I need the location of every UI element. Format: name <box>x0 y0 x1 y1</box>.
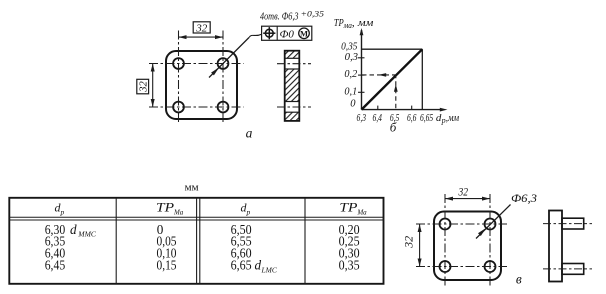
modifier circled M <box>299 28 310 39</box>
svg-text:Ф0: Ф0 <box>280 29 295 41</box>
label dia 6,3 <box>511 191 537 205</box>
table col1 data <box>45 222 97 273</box>
svg-text:32: 32 <box>458 187 469 199</box>
stud bottom (v) <box>562 264 584 275</box>
svg-text:4отв. Ф6,3: 4отв. Ф6,3 <box>260 10 299 22</box>
svg-text:0,2: 0,2 <box>344 69 358 80</box>
svg-text:0,35: 0,35 <box>339 258 360 273</box>
svg-text:6,65: 6,65 <box>231 258 252 273</box>
centerline horizontal top (a) <box>149 63 244 65</box>
graph box top line <box>362 48 423 50</box>
label v <box>516 272 522 287</box>
svg-text:0,15: 0,15 <box>157 258 177 273</box>
hole top-left (v) <box>440 219 451 230</box>
table header dp (col1) <box>55 201 65 217</box>
table header separator double line <box>9 217 383 220</box>
side view plate (v) <box>549 211 562 282</box>
svg-text:,мм: ,мм <box>446 113 460 124</box>
graph X axis <box>362 108 448 112</box>
svg-text:ма: ма <box>343 21 352 30</box>
svg-text:мм: мм <box>185 181 199 193</box>
plate front view (v) <box>434 212 501 281</box>
stud centerline top <box>543 223 592 225</box>
svg-text:32: 32 <box>404 236 416 249</box>
hole bottom-left (a) <box>173 102 184 113</box>
svg-text:6,4: 6,4 <box>372 112 382 124</box>
table caption mm <box>185 181 199 193</box>
svg-text:d: d <box>70 222 77 237</box>
table header TPMa (col4) <box>339 200 367 217</box>
svg-text:6,6: 6,6 <box>407 112 417 124</box>
svg-text:0: 0 <box>350 99 356 110</box>
centerline horizontal bottom (v) <box>416 266 507 268</box>
stud top (v) <box>562 218 584 229</box>
dimension 32 vertical (a) <box>137 64 155 108</box>
table header dp (col3) <box>241 201 251 217</box>
centerline vertical left (v) <box>444 194 446 286</box>
callout text 4 holes dia 6,3 +0,35 <box>260 10 324 23</box>
dimension 32 horizontal (a) <box>179 22 224 39</box>
table center double line <box>197 198 200 284</box>
dimension 32 vertical (v) <box>404 224 422 267</box>
svg-text:d: d <box>255 258 262 273</box>
svg-text:0,35: 0,35 <box>341 42 357 53</box>
leader line dia 6,3 (v) <box>476 205 511 239</box>
svg-text:32: 32 <box>137 81 149 93</box>
svg-text:в: в <box>516 272 522 287</box>
graph diagonal line <box>362 49 423 109</box>
centerline horizontal top (v) <box>416 223 507 225</box>
table column line 1 <box>115 198 117 284</box>
X axis label dp, mm <box>436 112 459 125</box>
svg-text:Ф6,3: Ф6,3 <box>511 191 537 205</box>
dimension 32 horizontal (v) <box>445 187 490 201</box>
table outer border <box>9 198 383 284</box>
hole bottom-right (a) <box>218 102 229 113</box>
leader line to feature control frame (a) <box>209 34 262 77</box>
section side view (a) <box>285 51 300 121</box>
hole top-right (v) <box>485 219 496 230</box>
svg-text:б: б <box>390 120 397 135</box>
hole bottom-right (v) <box>485 261 496 272</box>
feature control frame <box>262 26 312 40</box>
graph Y axis <box>360 28 364 110</box>
table col2 data <box>157 222 177 273</box>
svg-text:а: а <box>246 126 253 141</box>
svg-text:0,3: 0,3 <box>345 52 358 63</box>
graph X ticks <box>378 106 412 110</box>
svg-text:6,3: 6,3 <box>357 112 367 124</box>
section centerline top hole <box>277 63 311 65</box>
svg-text:М: М <box>300 29 308 39</box>
label a <box>246 126 253 141</box>
graph box right line <box>421 49 423 109</box>
table header TPMa (col2) <box>156 200 184 217</box>
svg-text:32: 32 <box>195 22 208 34</box>
hole top-right (a) <box>218 58 229 69</box>
svg-text:LMC: LMC <box>261 265 278 274</box>
Y tick labels <box>341 42 358 110</box>
svg-text:, мм: , мм <box>352 18 374 29</box>
X tick labels <box>357 112 434 124</box>
label b (graph) <box>390 120 397 135</box>
Y axis label TPma, mm <box>334 18 374 30</box>
centerline vertical left (a) <box>178 31 180 125</box>
position tolerance symbol <box>263 27 275 39</box>
dashed pointer horizontal at 0,2 <box>362 73 396 77</box>
centerline horizontal bottom (a) <box>149 106 244 108</box>
svg-text:6,45: 6,45 <box>45 258 66 273</box>
table col3 data <box>231 222 278 274</box>
dashed pointer vertical at 6,5 <box>394 76 398 108</box>
svg-text:6,65: 6,65 <box>420 112 434 124</box>
centerline vertical right (a) <box>222 31 224 125</box>
stud centerline bottom <box>543 268 592 270</box>
table column line 3 <box>304 198 306 284</box>
svg-text:0,1: 0,1 <box>344 86 357 97</box>
hole bottom-left (v) <box>440 261 451 272</box>
tolerance value F0 <box>280 29 295 41</box>
svg-text:+0,35: +0,35 <box>301 10 325 19</box>
table col4 data <box>339 222 360 273</box>
graph Y ticks <box>358 58 365 93</box>
svg-text:ММС: ММС <box>77 230 96 239</box>
centerline vertical right (v) <box>489 194 491 286</box>
plate front view (a) <box>166 51 237 119</box>
section centerline bottom hole <box>277 106 311 108</box>
hole top-left (a) <box>173 58 184 69</box>
